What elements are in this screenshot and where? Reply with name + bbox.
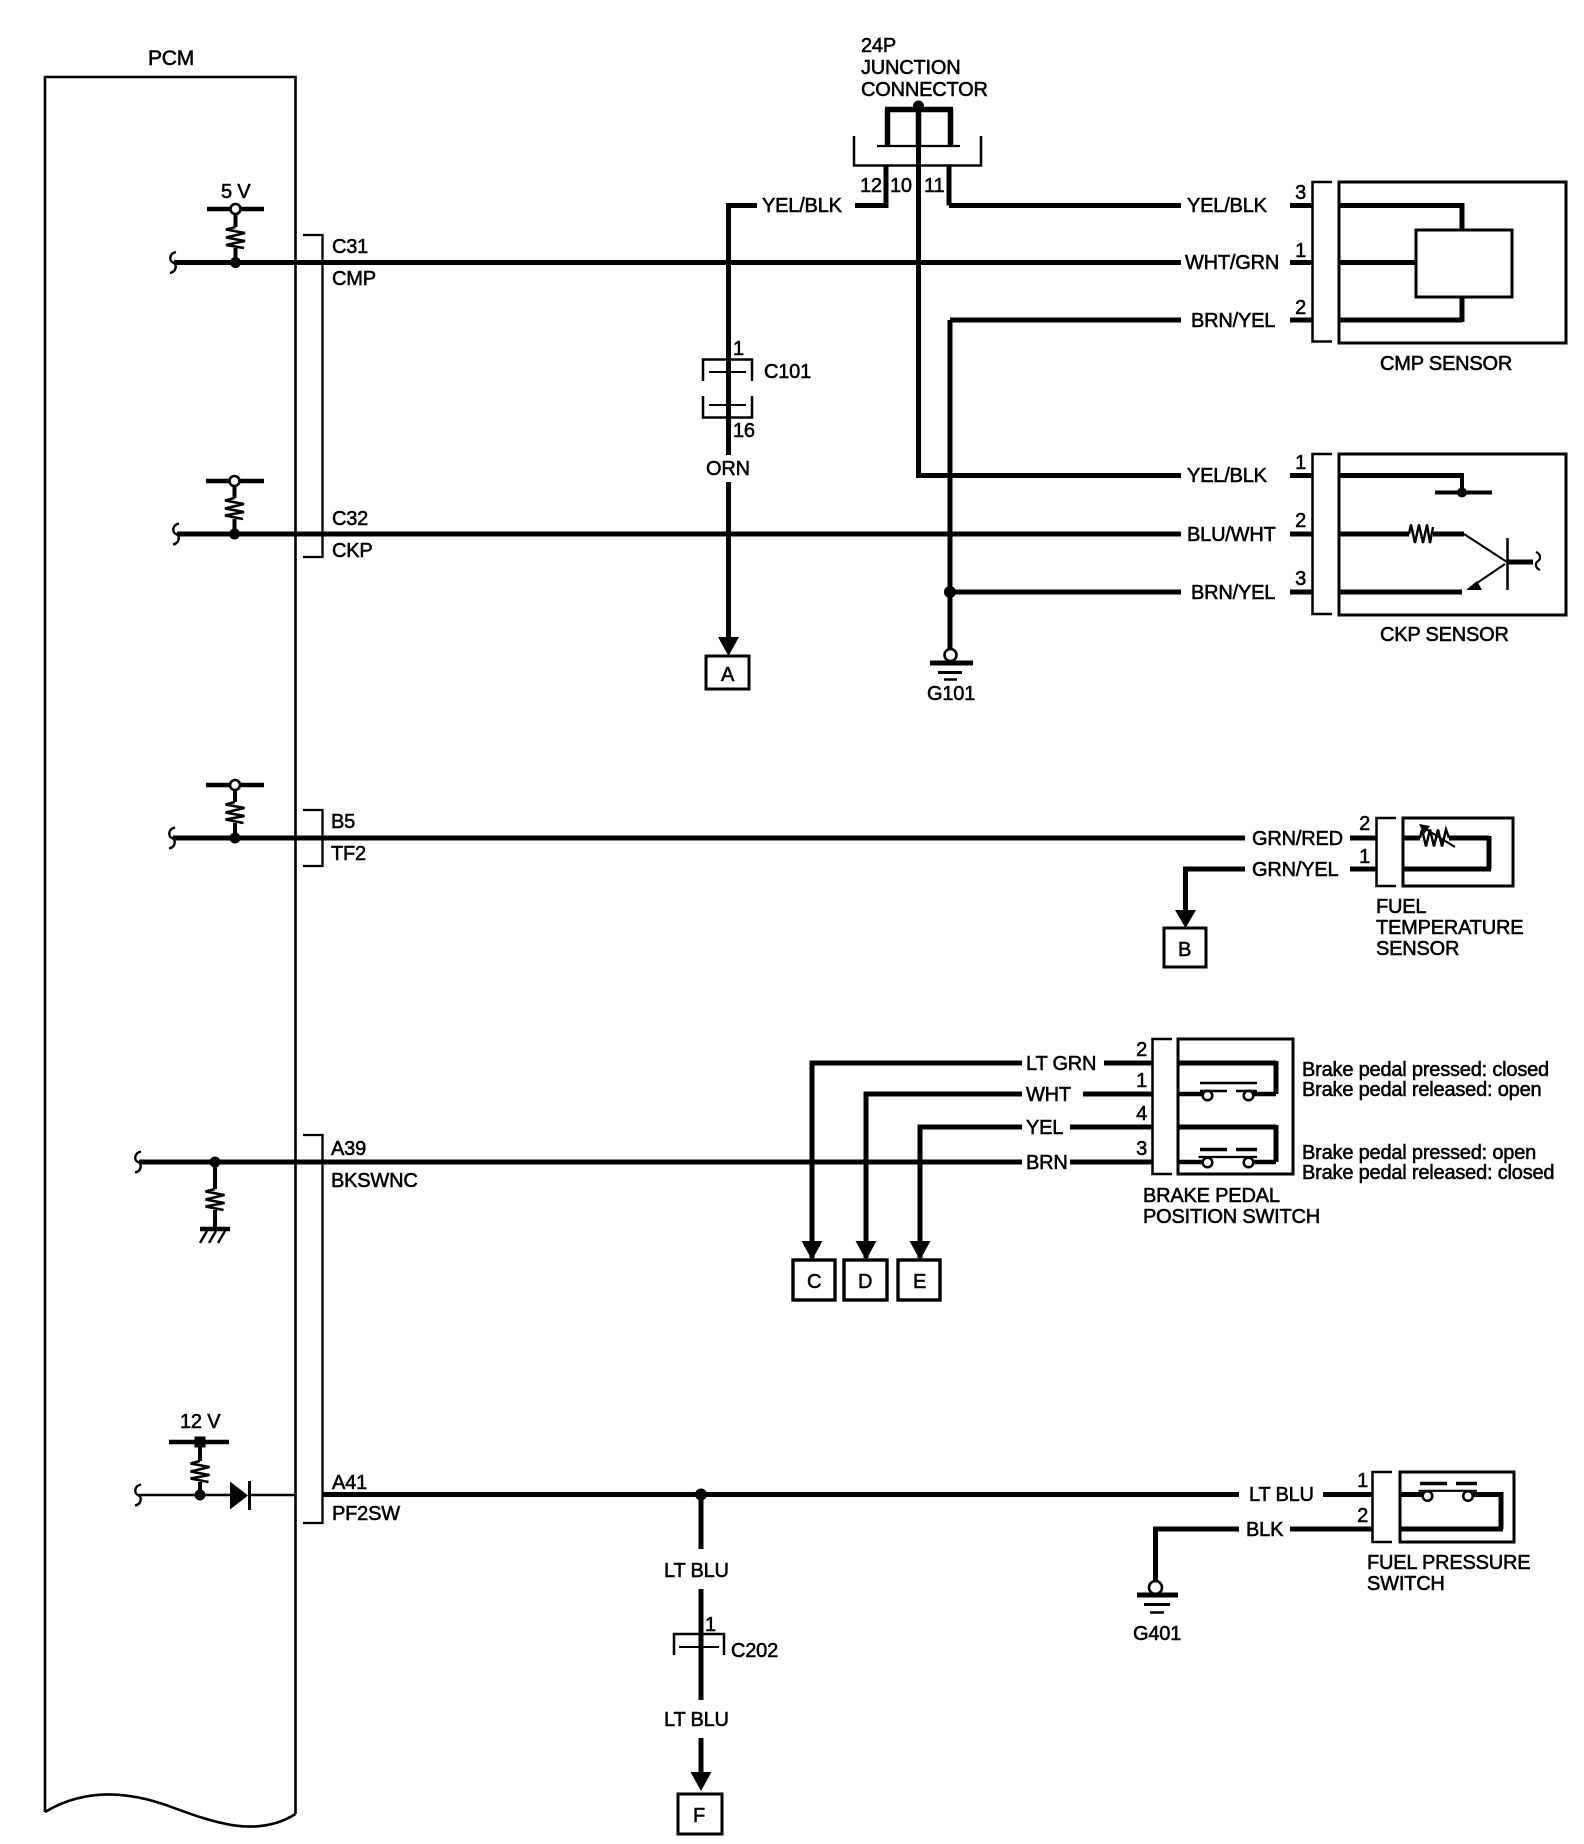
svg-text:1: 1 [1295,240,1306,262]
arrow to node D [856,1241,877,1260]
ground G101 [927,649,975,705]
svg-text:FUEL: FUEL [1376,896,1426,918]
wire to CKP pin 3 [950,590,1313,595]
junction dot (BRN/YEL branch to CKP pin 3) [944,586,956,598]
svg-text:12 V: 12 V [180,1411,221,1433]
junction dot (A41 / C202 branch) [695,1489,707,1501]
node C box [793,1260,835,1300]
svg-text:CMP: CMP [332,268,376,290]
svg-text:1: 1 [1357,1470,1368,1492]
wire C32 to CKP pin 2 [173,524,1313,545]
wire pin 11 to CMP pin 3 [949,203,1181,208]
svg-text:PF2SW: PF2SW [332,1503,400,1525]
svg-text:BKSWNC: BKSWNC [331,1170,418,1192]
wire pin 12 to C101 [729,203,887,359]
svg-text:1: 1 [733,338,744,360]
wire YEL to brake switch pin 4 [920,1127,1153,1258]
svg-text:GRN/RED: GRN/RED [1252,828,1343,850]
svg-text:A41: A41 [332,1472,367,1494]
resistor R3 (TF2 pull-up) [206,780,264,838]
svg-text:CMP SENSOR: CMP SENSOR [1380,353,1512,375]
wire LT GRN to brake switch pin 2 [812,1063,1153,1258]
node F box [678,1794,722,1834]
chassis ground (PCM internal) [200,1229,230,1243]
svg-text:2: 2 [1295,510,1306,532]
FUEL PRESSURE SWITCH label [1367,1552,1530,1595]
node A box [706,656,749,689]
junction dot (C32 wire / pull-up) [229,529,240,540]
svg-text:LT BLU: LT BLU [664,1560,729,1582]
svg-text:BLK: BLK [1246,1519,1284,1541]
svg-text:1: 1 [1359,846,1370,868]
CKP sensor connector strip [1313,454,1333,614]
svg-text:BRN: BRN [1026,1152,1068,1174]
FUEL TEMPERATURE SENSOR label [1376,896,1523,960]
wire stub CMP pin 3 [1290,203,1313,208]
svg-text:E: E [913,1271,926,1293]
arrow to node E [910,1241,931,1260]
svg-text:C31: C31 [332,236,368,258]
PCM box [45,77,296,1827]
wire junction pin 12 stub [884,165,889,206]
svg-text:JUNCTION: JUNCTION [861,57,961,79]
wire GRN/YEL to connector B [1175,869,1377,928]
svg-text:10: 10 [890,175,912,197]
12V supply bar and terminal [169,1437,229,1448]
connector bracket A39/A41 [303,1135,323,1523]
fuel pressure switch connector strip [1373,1472,1393,1542]
svg-text:POSITION SWITCH: POSITION SWITCH [1143,1206,1320,1228]
diode D1 [230,1481,250,1510]
fuel pressure switch box [1400,1472,1514,1542]
svg-text:2: 2 [1295,297,1306,319]
fuel temperature sensor box [1403,818,1513,886]
svg-text:SENSOR: SENSOR [1376,938,1459,960]
svg-text:3: 3 [1295,182,1306,204]
svg-text:2: 2 [1357,1505,1368,1527]
5V supply bar and terminal [207,204,264,214]
svg-text:BLU/WHT: BLU/WHT [1187,524,1276,546]
BRAKE PEDAL POSITION SWITCH label [1143,1185,1320,1228]
svg-text:24P: 24P [861,35,896,57]
svg-text:LT BLU: LT BLU [1249,1484,1314,1506]
svg-text:F: F [693,1805,705,1827]
svg-text:C202: C202 [731,1640,778,1662]
brake switch annotation bottom [1302,1142,1554,1184]
svg-text:LT BLU: LT BLU [664,1709,729,1731]
brake pedal position switch box [1178,1039,1293,1174]
svg-text:Brake pedal pressed: open: Brake pedal pressed: open [1302,1142,1536,1164]
wire to connector F [691,1738,712,1791]
wire WHT to brake switch pin 1 [866,1094,1153,1258]
svg-text:1: 1 [1136,1070,1147,1092]
wire ORN to connector A [718,482,739,656]
svg-text:1: 1 [1295,452,1306,474]
wire stub CKP pin 1 [1290,473,1313,478]
svg-text:2: 2 [1359,813,1370,835]
wire A41 to fuel pressure switch pin 1 [322,1492,1373,1497]
CKP sensor box [1339,454,1566,615]
wire drop from A41 to C202 [699,1495,704,1701]
node B box [1164,928,1206,967]
svg-text:WHT/GRN: WHT/GRN [1185,252,1279,274]
svg-text:2: 2 [1136,1039,1147,1061]
svg-text:3: 3 [1136,1138,1147,1160]
svg-text:BRN/YEL: BRN/YEL [1191,582,1275,604]
svg-text:PCM: PCM [148,47,194,70]
svg-text:C: C [807,1271,821,1293]
svg-text:GRN/YEL: GRN/YEL [1252,859,1338,881]
svg-text:1: 1 [705,1614,716,1636]
connector bracket C31/C32 [303,235,323,557]
svg-text:CONNECTOR: CONNECTOR [861,79,988,101]
wire BLK to G401 [1153,1529,1373,1581]
svg-text:G101: G101 [927,683,975,705]
svg-text:D: D [858,1271,872,1293]
resistor R4 (BKSWNC pull-down) [206,1162,225,1229]
svg-text:5 V: 5 V [221,181,251,203]
24P junction connector labels [861,35,988,101]
svg-text:C32: C32 [332,508,368,530]
svg-text:BRAKE PEDAL: BRAKE PEDAL [1143,1185,1280,1207]
ground G401 [1133,1581,1181,1645]
wire pin10 corner to CKP pin 1 [916,473,1181,478]
svg-text:WHT: WHT [1026,1084,1071,1106]
svg-text:16: 16 [733,420,755,442]
svg-text:SWITCH: SWITCH [1367,1573,1445,1595]
junction dot (A41 wire / pull-up) [195,1490,206,1501]
svg-text:C101: C101 [764,361,811,383]
brake switch annotation top [1302,1059,1549,1101]
fuel temperature sensor connector strip [1377,818,1397,886]
connector C101 [703,359,752,455]
svg-text:BRN/YEL: BRN/YEL [1191,310,1275,332]
wire pin 10 down to CKP YEL/BLK [916,109,921,476]
svg-text:YEL: YEL [1026,1117,1063,1139]
wire B5 to fuel temperature sensor pin 2 [169,828,1377,849]
svg-text:FUEL PRESSURE: FUEL PRESSURE [1367,1552,1530,1574]
junction dot (A39 wire / pull-down) [210,1157,221,1168]
svg-text:LT GRN: LT GRN [1026,1053,1096,1075]
svg-text:G401: G401 [1133,1623,1181,1645]
svg-text:TEMPERATURE: TEMPERATURE [1376,917,1523,939]
svg-text:YEL/BLK: YEL/BLK [1187,465,1268,487]
wire CMP pin 2 BRN/YEL down to G101 [950,320,1313,649]
connector C202 [674,1634,724,1655]
svg-text:B: B [1178,939,1191,961]
svg-text:3: 3 [1295,568,1306,590]
svg-text:Brake pedal released: open: Brake pedal released: open [1302,1079,1541,1101]
svg-text:A: A [721,664,735,686]
wire A41 internal [135,1485,295,1506]
resistor R1 (CMP pull-up) [226,213,245,262]
svg-text:B5: B5 [331,811,355,833]
junction dot (C31 wire / pull-up) [230,257,241,268]
svg-text:YEL/BLK: YEL/BLK [762,195,843,217]
svg-text:CKP SENSOR: CKP SENSOR [1380,624,1509,646]
svg-text:12: 12 [860,175,882,197]
svg-text:4: 4 [1136,1103,1147,1125]
arrow to node C [802,1241,823,1260]
svg-text:YEL/BLK: YEL/BLK [1187,195,1268,217]
node E box [898,1260,940,1300]
brake switch connector strip [1153,1039,1173,1174]
wire A39 to BRN [135,1152,1153,1173]
svg-text:Brake pedal pressed: closed: Brake pedal pressed: closed [1302,1059,1549,1081]
svg-text:A39: A39 [331,1138,366,1160]
24P junction connector symbol [854,101,981,166]
svg-text:CKP: CKP [332,540,373,562]
wire C31 to CMP pin 1 [170,252,1313,273]
resistor R5 (PF2SW pull-up) [191,1447,210,1495]
svg-text:11: 11 [924,175,944,197]
svg-text:ORN: ORN [706,458,750,480]
wire junction pin 11 stub [947,165,952,206]
CMP sensor box [1339,182,1566,343]
svg-text:Brake pedal released: closed: Brake pedal released: closed [1302,1162,1554,1184]
resistor R2 (CKP pull-up) [206,476,264,534]
junction dot (B5 wire / pull-up) [230,833,241,844]
svg-text:TF2: TF2 [331,843,366,865]
CMP sensor connector strip [1313,182,1333,342]
connector bracket B5 [303,810,323,866]
node D box [844,1260,887,1300]
